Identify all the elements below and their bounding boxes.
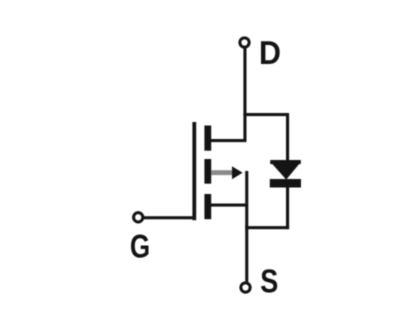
terminal D: [240, 38, 249, 47]
wire gate lead: [144, 216, 194, 219]
wire diode cathode lead: [286, 186, 289, 229]
body arrow shaft: [211, 170, 234, 175]
wire drain to diode top: [243, 113, 289, 116]
terminal S: [241, 283, 250, 292]
diode D1 cathode bar: [270, 179, 301, 188]
channel bar top: [204, 126, 211, 151]
terminal G: [134, 213, 143, 222]
body arrow head: [232, 166, 243, 179]
wire diode return to source: [245, 226, 289, 229]
wire drain lead: [243, 48, 246, 142]
wire source channel connection: [207, 204, 248, 207]
label S: [261, 269, 277, 292]
wire source vertical: [245, 171, 248, 282]
diode D1 anode bar: [270, 160, 301, 164]
wire diode anode lead: [286, 113, 289, 161]
channel bar bottom: [204, 194, 211, 219]
label G: [131, 235, 149, 258]
label D: [261, 41, 280, 64]
wire drain channel connection: [207, 139, 246, 142]
diode D1 triangle: [272, 164, 299, 180]
gate line: [192, 122, 196, 220]
channel bar middle: [204, 159, 211, 184]
